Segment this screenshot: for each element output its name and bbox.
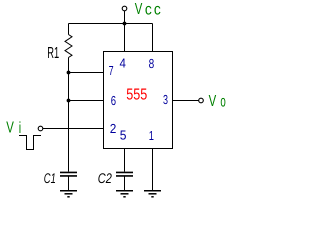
node pin7 junction (67, 71, 71, 75)
wire Vi to pin2 (43, 128, 104, 130)
svg-text:i: i (19, 120, 21, 137)
wire pin4 lead (124, 24, 126, 52)
svg-text:V: V (135, 1, 143, 18)
svg-text:7: 7 (109, 63, 114, 78)
wire Vcc top rail (69, 23, 153, 25)
svg-text:o: o (220, 94, 225, 111)
pulse waveform symbol (19, 136, 41, 150)
svg-text:5: 5 (120, 128, 127, 143)
capacitor C1 (60, 172, 77, 190)
wire pin3 lead (173, 100, 199, 102)
ground (C1) (60, 191, 77, 197)
ground (C2) (116, 191, 133, 197)
op-amp U1 555 IC box (104, 52, 173, 149)
wire Vcc stem (124, 11, 126, 24)
svg-text:V: V (209, 93, 217, 110)
svg-text:3: 3 (163, 92, 168, 107)
svg-text:555: 555 (126, 87, 147, 104)
svg-text:1: 1 (149, 128, 154, 143)
node pin6 junction (67, 99, 71, 103)
wire node column 6 to C1 (68, 101, 70, 172)
wire pin1 lead (152, 149, 154, 191)
wire node column 7-6 (68, 73, 70, 101)
svg-text:4: 4 (120, 56, 126, 71)
svg-text:R1: R1 (47, 45, 59, 62)
wire pin8 lead (152, 24, 154, 52)
resistor R1 (65, 24, 72, 73)
svg-text:8: 8 (149, 56, 155, 71)
wire pin6 lead (69, 100, 104, 102)
svg-text:2: 2 (110, 121, 117, 136)
wire pin5 lead (124, 149, 126, 172)
Vcc terminal (122, 6, 127, 11)
output terminal Vo (199, 98, 204, 103)
svg-text:C1: C1 (44, 170, 56, 186)
svg-text:c: c (145, 1, 152, 18)
svg-text:V: V (6, 119, 14, 136)
ground (pin1) (144, 191, 161, 197)
svg-text:C2: C2 (98, 170, 112, 186)
wire pin7 lead (69, 72, 104, 74)
svg-text:c: c (154, 1, 161, 18)
input terminal Vi (38, 126, 43, 131)
capacitor C2 (116, 172, 133, 190)
svg-text:6: 6 (111, 93, 116, 108)
node Vcc junction (123, 22, 127, 26)
